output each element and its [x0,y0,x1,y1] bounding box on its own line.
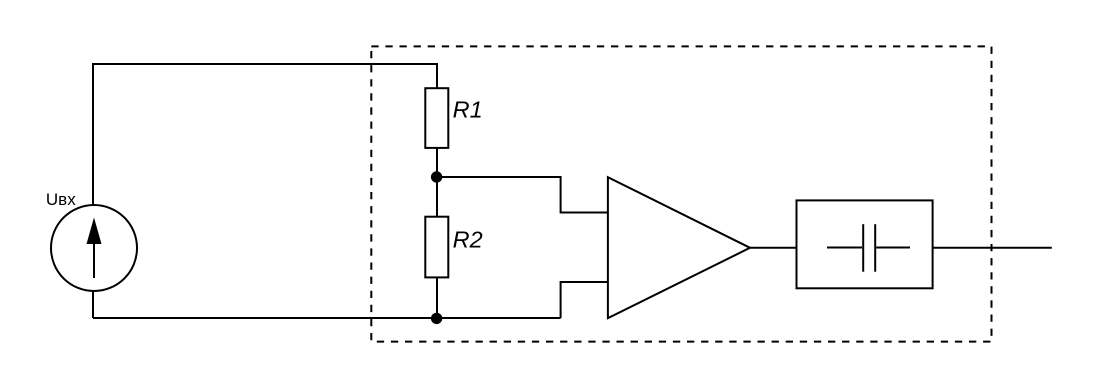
voltage source U1 circle [51,205,137,291]
filter block box [797,200,933,288]
wire: R2 bottom to bottom rail [436,277,438,318]
svg-text:R1: R1 [453,97,483,123]
svg-text:Uвх: Uвх [46,190,76,209]
op-amp U2 (amplifier triangle) [608,177,750,318]
dashed boundary box (four-pole network) [371,46,991,341]
capacitor C1 right lead [876,247,910,249]
resistor R1 [425,88,448,148]
resistor R2 [425,217,448,278]
wire: top left loop (from source top, up and right to R1 top) [93,64,437,206]
node B (junction on bottom rail) [431,313,442,324]
wire: source bottom to bottom rail [92,290,94,318]
wire: node A to amplifier upper input (step) [437,177,607,213]
wire: bottom rail to amplifier lower input (step) [561,282,607,318]
wire: output lead to the right [933,247,1052,249]
capacitor C1 left lead [827,247,862,249]
capacitor C1 left plate [862,224,864,272]
wire: R1 bottom to R2 top [436,148,438,217]
wire: bottom rail [93,317,561,319]
voltage source arrow [93,242,95,278]
wire: amplifier output to filter box [750,247,797,249]
capacitor C1 right plate [874,224,876,272]
node A (junction between R1 and R2) [431,171,442,182]
svg-text:R2: R2 [453,227,483,253]
